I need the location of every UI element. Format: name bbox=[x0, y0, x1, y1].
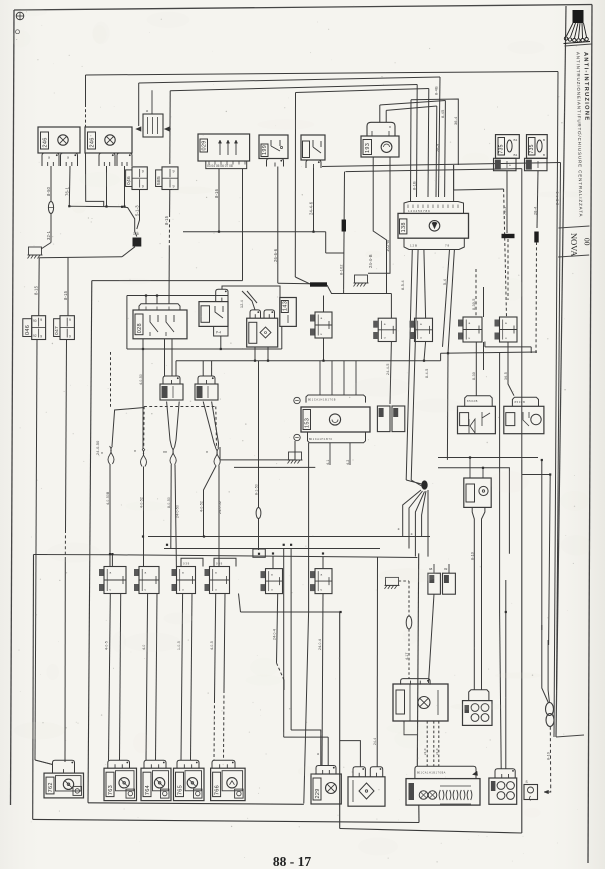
bus y253 segment bbox=[326, 252, 344, 254]
svg-text:764: 764 bbox=[145, 785, 151, 795]
wire P3 up dashed bbox=[475, 269, 477, 317]
svg-text:028: 028 bbox=[137, 323, 143, 333]
bus y349 under K bbox=[127, 348, 282, 350]
connector pair D2 585 bbox=[156, 170, 162, 187]
svg-text:ANTI-INTRUZIONE: ANTI-INTRUZIONE bbox=[582, 52, 589, 122]
bus y536 bbox=[148, 536, 430, 538]
lamp B2 stub bbox=[108, 760, 130, 768]
frame RectE right edge upper bbox=[417, 553, 418, 766]
outer page border left bbox=[11, 10, 15, 805]
splice blob on T2 wire bbox=[534, 232, 538, 243]
svg-text:735: 735 bbox=[499, 144, 505, 153]
wire bus L1 top bbox=[86, 72, 559, 76]
unit V body 187 bbox=[464, 478, 491, 507]
svg-text:a: a bbox=[215, 571, 217, 575]
lamp B5 body 766 bbox=[211, 768, 246, 800]
lamp B4 body 765 bbox=[174, 768, 205, 800]
svg-text:x: x bbox=[389, 124, 391, 129]
svg-text:26-6-6: 26-6-6 bbox=[273, 248, 278, 262]
wire bus mid y171 bbox=[345, 169, 521, 172]
splice out to bus y293 bbox=[327, 285, 391, 294]
svg-text:8-50: 8-50 bbox=[46, 186, 51, 196]
svg-text:8-0-50: 8-0-50 bbox=[167, 497, 171, 508]
sidebar bottom rule bbox=[556, 735, 584, 737]
svg-text:u: u bbox=[505, 336, 507, 340]
svg-text:a: a bbox=[146, 109, 148, 113]
sidebar left rule bbox=[556, 6, 566, 737]
svg-text:92: 92 bbox=[33, 334, 37, 338]
lamp box B bbox=[85, 127, 132, 153]
svg-text:B0 1 C A 1 H 1 B 7 0: B0 1 C A 1 H 1 B 7 0 bbox=[309, 438, 333, 441]
wire lamp B left-edge drop to stub bus bbox=[86, 153, 104, 207]
svg-text:9: 9 bbox=[173, 169, 175, 173]
wire P1 down bbox=[390, 342, 391, 405]
wire lamp A pin1 down bbox=[50, 166, 52, 201]
wire drop x68 to door switch C2 bbox=[67, 258, 69, 316]
4-circle connector X2 body bbox=[463, 701, 493, 726]
unit W mount dot bottom-left bbox=[294, 434, 300, 440]
svg-text:046: 046 bbox=[25, 325, 31, 335]
Q2 wires converge to bulge B4 bbox=[203, 402, 216, 449]
scan specks bbox=[203, 135, 204, 136]
lamp A stub left bbox=[42, 153, 59, 166]
splice bulge B1 bbox=[108, 446, 111, 464]
K bottom wires to Q pairs bbox=[164, 339, 166, 376]
theft-horn connector 178 (dark) bbox=[133, 238, 142, 247]
svg-text:9: 9 bbox=[69, 318, 71, 322]
wire B3 out1 bbox=[170, 465, 172, 549]
wire bus y190 to dashed drop bbox=[454, 189, 504, 190]
siren body 193 bbox=[361, 136, 399, 157]
dashed drop from splice link to item X4 bbox=[549, 727, 551, 786]
unit W bottom wire labels bbox=[329, 443, 331, 465]
wire L1 left drop to lamp B bbox=[85, 75, 87, 104]
lamp B1 stub bbox=[53, 760, 75, 773]
svg-text:8-16: 8-16 bbox=[214, 188, 219, 198]
lamp B stub right bbox=[117, 153, 132, 166]
svg-text:229: 229 bbox=[315, 788, 321, 798]
bus y556 bbox=[112, 555, 417, 558]
svg-text:B1: B1 bbox=[514, 138, 518, 142]
dashed feeds X1 to X6 stub bbox=[426, 721, 428, 766]
splice bulge B2 bbox=[141, 449, 144, 467]
tall loop x522/x550 bbox=[522, 474, 550, 476]
multi-pin connector X6 body bbox=[406, 779, 480, 806]
wire P2 down bbox=[424, 342, 426, 361]
wire L5 right drop to unit U1 bbox=[444, 101, 447, 198]
svg-text:7 8: 7 8 bbox=[445, 244, 450, 248]
svg-text:88 - 17: 88 - 17 bbox=[273, 854, 311, 869]
svg-text:8-102: 8-102 bbox=[340, 264, 344, 275]
relay M body 159 bbox=[247, 318, 278, 347]
hazard switch K top stub bbox=[139, 304, 180, 310]
wire L4 right drop to unit U1 bbox=[427, 89, 430, 198]
circle connector X3 body bbox=[489, 778, 517, 804]
svg-text:8-4B: 8-4B bbox=[435, 86, 439, 95]
V top feeds bbox=[469, 458, 471, 479]
bus y295 over K bbox=[127, 295, 228, 297]
control unit U1 body 138 bbox=[398, 213, 469, 238]
svg-text:u: u bbox=[321, 332, 323, 336]
connector pair row PC bbox=[181, 558, 203, 566]
svg-text:*: * bbox=[206, 451, 208, 457]
svg-text:*: * bbox=[134, 450, 136, 456]
connector pair row PE bbox=[261, 571, 266, 578]
svg-text:u: u bbox=[110, 588, 112, 592]
wire bus L5 bbox=[380, 101, 446, 106]
wire S1a down into X1 stub bbox=[429, 594, 435, 683]
svg-text:199: 199 bbox=[262, 145, 268, 155]
dashed bus y406 bbox=[144, 406, 216, 408]
wire bus L6 bbox=[386, 106, 437, 110]
wire drop to conn P1 bbox=[390, 294, 392, 319]
svg-text:246: 246 bbox=[89, 137, 95, 147]
relay box 199 bbox=[259, 135, 288, 159]
splice bulge B4 bbox=[214, 448, 217, 466]
svg-text:178: 178 bbox=[133, 232, 139, 236]
unit W feed drops from bus bbox=[319, 361, 321, 395]
splice blob x343 bbox=[342, 220, 346, 232]
svg-text:24-0-50: 24-0-50 bbox=[175, 505, 179, 518]
siren pin down x373 jog bbox=[373, 157, 386, 294]
svg-text:0 3 9: 0 3 9 bbox=[216, 562, 223, 566]
wire B3 out2 to conn PC bbox=[175, 465, 176, 567]
U1 key symbol bbox=[429, 221, 440, 232]
wire D2 down to switch K dashed bbox=[169, 190, 171, 215]
relay box 200 bbox=[301, 135, 325, 160]
V bottom wires fan bbox=[472, 507, 474, 689]
long riser x377 to diamond stub bbox=[376, 558, 378, 767]
wire x458 from corner down bbox=[411, 99, 458, 165]
frame RectE right edge lower stub bbox=[418, 805, 420, 823]
svg-text:193: 193 bbox=[365, 143, 371, 153]
svg-text:B: B bbox=[543, 138, 545, 142]
svg-text:24-0-50: 24-0-50 bbox=[96, 441, 100, 456]
svg-text:75-1: 75-1 bbox=[503, 207, 507, 215]
svg-text:9: 9 bbox=[142, 169, 144, 173]
svg-text:a: a bbox=[316, 753, 320, 755]
wire from 178 down-left bbox=[122, 247, 135, 257]
wire x143 from K to bulge B2 upper bbox=[142, 349, 144, 449]
X1 bottom-left pin L-wire into X6 stub bbox=[404, 721, 417, 735]
actuator X5 body 229 bbox=[311, 774, 341, 804]
conn Q1 below K bbox=[163, 376, 180, 384]
svg-text:a: a bbox=[321, 316, 323, 320]
door switch C1 046 bbox=[23, 319, 32, 337]
svg-text:4-2: 4-2 bbox=[346, 459, 350, 465]
svg-text:8 5 0 2 B: 8 5 0 2 B bbox=[515, 400, 526, 404]
wire x542 down bbox=[541, 460, 543, 630]
svg-text:12-4: 12-4 bbox=[240, 300, 244, 308]
connector pair row PA bbox=[99, 569, 104, 576]
pair PC wires down to lamp B4 bbox=[181, 594, 183, 761]
frame RectB left edge bbox=[88, 281, 92, 803]
connector T2 lower 150 bbox=[525, 158, 548, 170]
relay L rounded stub above bbox=[216, 289, 228, 301]
svg-text:*: * bbox=[101, 452, 103, 458]
outer page border right bbox=[588, 5, 592, 864]
connector T1 735 bbox=[496, 135, 520, 159]
connector T1 lower 150 bbox=[494, 158, 517, 170]
wire bus L4 bbox=[296, 89, 429, 93]
svg-text:9: 9 bbox=[40, 318, 42, 322]
corner bus y410 left bbox=[112, 408, 144, 447]
lamp B1 body 762 bbox=[44, 773, 84, 798]
frame RectC right edge bbox=[521, 460, 523, 833]
wire U1 top x453 from bus bbox=[453, 165, 455, 190]
wire P3 down bbox=[475, 342, 477, 396]
svg-text:a: a bbox=[145, 571, 147, 575]
X6 bracket pins bbox=[439, 790, 440, 800]
relay RB2 with motor symbol bbox=[504, 406, 544, 433]
bus y353 long right bbox=[441, 352, 537, 353]
svg-text:B0 1 C A 1 H 1 B 1 7 0 B: B0 1 C A 1 H 1 B 1 7 0 B bbox=[308, 399, 336, 402]
wire C1 bend into lamp B1 stub bbox=[35, 760, 53, 765]
svg-text:u: u bbox=[182, 588, 184, 592]
main splice bar y284 bbox=[295, 277, 311, 284]
svg-text:u: u bbox=[321, 588, 323, 592]
hazard switch K body 028 bbox=[133, 310, 187, 339]
wire L3 right drop to unit U1 bbox=[416, 85, 419, 198]
ground G3 with dashed run bbox=[386, 577, 399, 585]
U1 bottom wire x418 long down bbox=[411, 250, 418, 481]
svg-text:9: 9 bbox=[142, 185, 144, 189]
wire P3b down bbox=[483, 342, 485, 370]
svg-text:138: 138 bbox=[401, 222, 407, 232]
wire bus mid y165 bbox=[322, 163, 561, 167]
svg-text:03 04 05 06 07 08: 03 04 05 06 07 08 bbox=[207, 164, 233, 168]
wire C2 down very long bbox=[66, 340, 67, 531]
wire B4 out1 bbox=[204, 466, 217, 537]
frame RectC left edge bbox=[339, 612, 341, 829]
wire C1 down very long bbox=[35, 340, 37, 761]
wire x343 join bus y293 bbox=[343, 289, 345, 293]
wire bus L3 bbox=[170, 85, 417, 91]
splice bulge B3 bbox=[170, 447, 173, 465]
svg-text:B0 1 C A 1 H 1 B 1 7 0 B A: B0 1 C A 1 H 1 B 1 7 0 B A bbox=[417, 772, 446, 775]
relay L stub below bbox=[214, 326, 228, 336]
svg-text:a: a bbox=[505, 321, 507, 325]
wire L3 left drop to connector X585 bbox=[169, 91, 171, 164]
wire lamp B pin2 drop bbox=[124, 166, 126, 207]
svg-text:4-0-5: 4-0-5 bbox=[210, 641, 214, 650]
pair PB wires down to lamp B3 bbox=[146, 594, 148, 761]
pair PE wire down with switch break bbox=[277, 594, 278, 664]
svg-text:8-10: 8-10 bbox=[547, 752, 551, 760]
wire x343 long with splice bbox=[343, 172, 346, 290]
wire 200 down x317 bbox=[313, 168, 315, 232]
conn Q2 below K bbox=[198, 376, 215, 384]
sidebar NOVA cell divider bbox=[558, 255, 589, 257]
wire lamp A pin2 to bus bbox=[68, 166, 71, 206]
long drop x499 from bus bbox=[499, 353, 501, 612]
knot fan down bbox=[403, 490, 421, 537]
svg-text:76-1: 76-1 bbox=[65, 186, 70, 196]
branch from frame RectC to diamond stub bbox=[340, 741, 361, 767]
sidebar connector icon bbox=[573, 10, 584, 23]
svg-text:90: 90 bbox=[33, 319, 37, 323]
M bottom wires bbox=[254, 347, 256, 361]
svg-text:32-1: 32-1 bbox=[46, 230, 51, 240]
svg-text:8-5-4: 8-5-4 bbox=[401, 280, 405, 290]
svg-text:B: B bbox=[543, 153, 545, 157]
svg-text:24-0-52: 24-0-52 bbox=[218, 501, 222, 514]
unit W ground bbox=[294, 441, 296, 460]
wire L6 right drop to unit U1 bbox=[435, 106, 438, 197]
wire 029 pin down x242 to frame corner bbox=[242, 169, 244, 281]
svg-text:a: a bbox=[271, 573, 273, 577]
svg-text:u: u bbox=[145, 588, 147, 592]
svg-text:9: 9 bbox=[173, 185, 175, 189]
wire L top x222 up corner bbox=[222, 286, 280, 298]
frame RectC bottom edge bbox=[340, 829, 522, 834]
svg-text:*: * bbox=[410, 533, 416, 535]
outer page border top bbox=[14, 5, 592, 11]
svg-text:u: u bbox=[469, 336, 471, 340]
conn P3 bbox=[458, 320, 463, 327]
bus y548 bbox=[164, 548, 380, 550]
wire 029 pin down x219 bbox=[218, 169, 220, 232]
svg-text:24-0-4: 24-0-4 bbox=[318, 639, 322, 650]
svg-text:8-15: 8-15 bbox=[164, 215, 169, 225]
bus y346 over RBs bbox=[485, 346, 531, 348]
svg-text:24-4-5: 24-4-5 bbox=[386, 363, 390, 375]
control unit U1 bottom stub row bbox=[404, 238, 464, 249]
sidebar title cell divider bbox=[559, 226, 590, 228]
pair PA wires down to lamp B2 bbox=[109, 594, 111, 761]
svg-text:4-0-50: 4-0-50 bbox=[139, 374, 143, 385]
wire T1 down bbox=[506, 171, 508, 233]
svg-text:u: u bbox=[384, 336, 386, 340]
svg-text:36-5: 36-5 bbox=[504, 372, 508, 380]
svg-text:4-0-52: 4-0-52 bbox=[200, 501, 204, 512]
svg-text:a: a bbox=[110, 571, 112, 575]
svg-text:585: 585 bbox=[156, 176, 162, 185]
wire bus L2 bbox=[139, 77, 440, 83]
bus y360 left drop to Q1 bbox=[175, 361, 177, 376]
bus y231 long bbox=[183, 231, 326, 233]
frame RectE bottom edge bbox=[33, 819, 419, 822]
feeds into Q2 top bbox=[202, 361, 204, 376]
pair PF wire down to box X5 bbox=[322, 594, 323, 766]
svg-text:a: a bbox=[321, 573, 323, 577]
dashed feed x110 upper bbox=[110, 352, 112, 408]
Q1 wires converge to bulge B3 bbox=[167, 402, 172, 448]
svg-text:8-45: 8-45 bbox=[441, 110, 445, 118]
wire x258 long from bus360 to S2 bbox=[258, 361, 260, 508]
wire 199 down x277 bbox=[277, 167, 279, 284]
bus y612 riser to Q-pair row bbox=[239, 594, 241, 613]
relay RB2 top stub row bbox=[512, 397, 538, 406]
svg-text:a: a bbox=[48, 156, 50, 160]
circle connector X3 stub bbox=[495, 769, 515, 778]
wire L2 right drop to unit U1 bbox=[439, 77, 441, 197]
registration mark circled-plus top-left bbox=[16, 12, 24, 20]
frame RectE left edge bbox=[32, 555, 35, 820]
small connector S1b bbox=[443, 573, 456, 594]
X6 stub arrow mark bbox=[473, 771, 478, 775]
svg-text:5-1-3: 5-1-3 bbox=[135, 205, 140, 216]
splice blob on T1 wire bbox=[502, 234, 515, 238]
svg-text:**: ** bbox=[163, 451, 167, 457]
U1 bottom wire x449 down bbox=[443, 250, 450, 347]
wire L4 left drop long bbox=[294, 93, 296, 278]
svg-text:8-30: 8-30 bbox=[472, 372, 476, 380]
svg-text:4-0-50B: 4-0-50B bbox=[106, 491, 110, 505]
frame RectB right portion bottom bbox=[92, 280, 243, 282]
svg-text:766: 766 bbox=[214, 785, 220, 795]
long wire x406 through rows bbox=[403, 480, 407, 491]
splice link symbol bbox=[546, 703, 554, 716]
svg-text:00: 00 bbox=[583, 238, 592, 246]
unit W mount dot top-left bbox=[294, 397, 300, 403]
svg-text:8-30-5: 8-30-5 bbox=[472, 298, 476, 310]
connector box C with arrows bbox=[143, 114, 163, 137]
U1 bottom wire x412 long down bbox=[406, 250, 412, 481]
siren assembly: rounded top bbox=[367, 122, 395, 136]
unit W top stub row bbox=[306, 395, 366, 403]
svg-text:762: 762 bbox=[48, 782, 54, 792]
svg-text:*: * bbox=[398, 528, 404, 530]
wire B1 out to conn PA bbox=[109, 464, 111, 567]
wire L5 left drop to siren S bbox=[379, 105, 381, 122]
splice knot bbox=[406, 480, 421, 486]
x499 pair continue to bottom box bbox=[500, 612, 502, 769]
wire B2 out to conn PB bbox=[143, 467, 145, 567]
svg-text:u: u bbox=[215, 588, 217, 592]
svg-text:4-17: 4-17 bbox=[405, 652, 409, 660]
bus y231 right corner down bbox=[325, 232, 327, 253]
x542/548 merge to splice link bbox=[542, 625, 549, 703]
wire L6 left drop to siren S bbox=[385, 110, 387, 122]
wire x411 drop to unit top bbox=[410, 100, 413, 202]
conn P1 bbox=[373, 321, 378, 328]
lamp B4 stub bbox=[177, 760, 199, 768]
svg-text:24-0-4: 24-0-4 bbox=[273, 629, 277, 640]
svg-text:24-4: 24-4 bbox=[373, 738, 377, 745]
bus y467 left segment bbox=[234, 466, 315, 468]
wire R30 down bbox=[323, 338, 325, 361]
199 bottom stub bbox=[267, 159, 284, 167]
dashed drop x216 to bulge B4 bbox=[215, 407, 218, 449]
wire P4 down bbox=[508, 342, 514, 396]
svg-text:1 2 B: 1 2 B bbox=[410, 244, 417, 248]
wire A1 continue to ground bbox=[50, 214, 52, 243]
svg-text:a: a bbox=[182, 571, 184, 575]
svg-text:28-4: 28-4 bbox=[534, 207, 538, 215]
svg-text:153: 153 bbox=[304, 418, 310, 428]
svg-text:8 5 0 2 B: 8 5 0 2 B bbox=[467, 399, 478, 403]
svg-text:u: u bbox=[271, 588, 273, 592]
wire drop x560 right column bbox=[557, 163, 561, 691]
svg-text:735: 735 bbox=[529, 144, 535, 153]
unit W bottom wire x308 = frame riser bbox=[304, 443, 309, 804]
svg-text:B1: B1 bbox=[514, 153, 518, 157]
door switch C2 047 bbox=[54, 319, 60, 337]
wire dashed drop x503 to conn P4 bbox=[504, 189, 507, 317]
svg-text:24-4-6: 24-4-6 bbox=[309, 201, 314, 215]
diamond unit X7 body bbox=[348, 777, 385, 806]
svg-text:8-10: 8-10 bbox=[470, 552, 474, 560]
U1 bottom wire x454 down bbox=[448, 250, 454, 354]
wire L1 right drop bbox=[554, 72, 558, 738]
conn pair R30 right of M bbox=[310, 315, 315, 322]
dashed drop x144 to bulge B2 bbox=[143, 407, 145, 450]
svg-text:u: u bbox=[420, 336, 422, 340]
relay RB1 top stub row bbox=[465, 396, 493, 407]
svg-text:5-4: 5-4 bbox=[443, 279, 447, 285]
svg-text:98: 98 bbox=[429, 567, 433, 571]
